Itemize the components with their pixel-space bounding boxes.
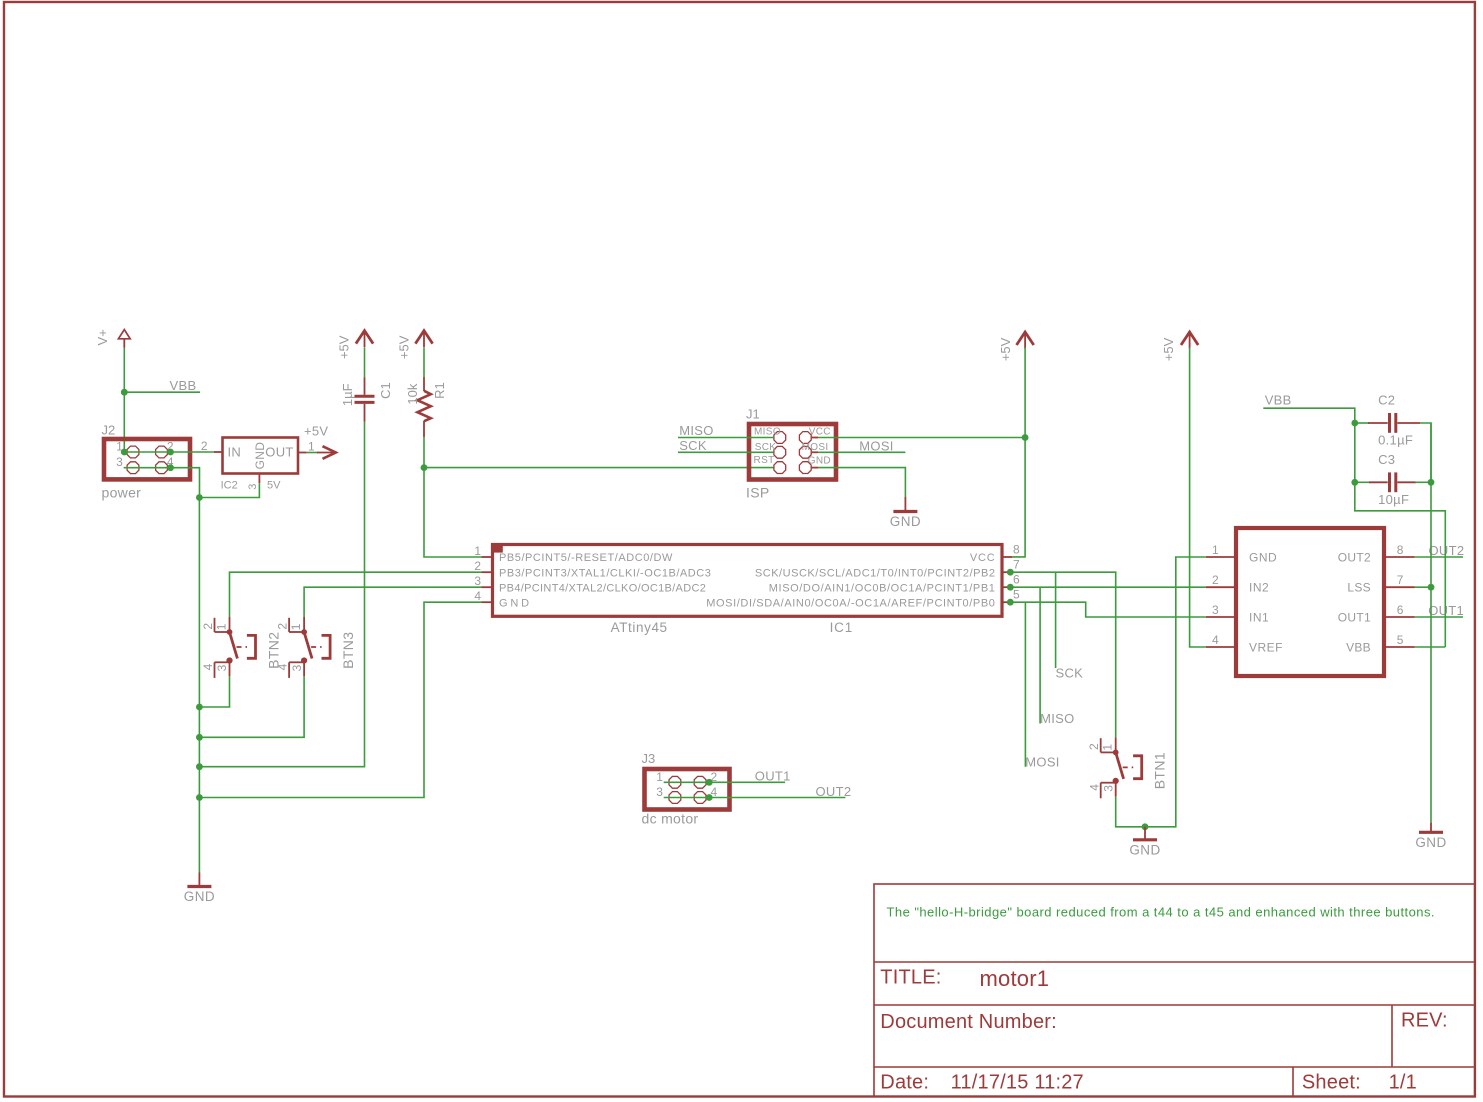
power symbol +5V (VCC rail): [998, 332, 1033, 361]
svg-text:1/1: 1/1: [1389, 1072, 1417, 1094]
pushbutton BTN2: [201, 617, 281, 678]
svg-text:dc motor: dc motor: [642, 811, 699, 827]
wire VBB to pin5: [1415, 646, 1446, 648]
svg-text:2: 2: [1212, 573, 1219, 587]
svg-text:2: 2: [201, 439, 208, 453]
svg-text:4: 4: [1212, 633, 1219, 647]
svg-text:3: 3: [474, 574, 481, 588]
svg-text:TITLE:: TITLE:: [880, 967, 941, 989]
svg-text:PB3/PCINT3/XTAL1/CLKI/-OC1B/AD: PB3/PCINT3/XTAL1/CLKI/-OC1B/ADC3: [499, 567, 711, 579]
svg-text:The "hello-H-bridge" board red: The "hello-H-bridge" board reduced from …: [887, 905, 1435, 920]
junction rail BTN2: [196, 704, 203, 711]
wire net MOSI stub: [818, 451, 905, 453]
svg-text:7: 7: [1397, 573, 1404, 587]
svg-text:SCK: SCK: [679, 438, 707, 453]
svg-text:PB4/PCINT4/XTAL2/CLKO/OC1B/ADC: PB4/PCINT4/XTAL2/CLKO/OC1B/ADC2: [499, 582, 706, 594]
svg-text:+5V: +5V: [397, 335, 412, 359]
wire VBB label to C2: [1263, 408, 1355, 423]
net label MOSI (ISP): [859, 439, 893, 454]
ground symbol (left rail): [184, 873, 215, 905]
svg-text:J2: J2: [102, 423, 116, 438]
junction BTN1 GND: [1142, 823, 1149, 830]
wire +5V rail down: [1024, 347, 1026, 437]
junction VCC/ISP: [1022, 434, 1029, 441]
net label OUT2 (J3): [816, 784, 852, 799]
svg-text:REV:: REV:: [1401, 1010, 1448, 1032]
svg-text:MISO: MISO: [1040, 711, 1074, 726]
wire net SCK dangle: [1055, 572, 1057, 668]
svg-text:BTN3: BTN3: [340, 632, 356, 669]
microcontroller IC1 ATtiny45: [474, 543, 1020, 635]
junction IC1 pin7: [1007, 569, 1014, 576]
wire IC2 GND to rail: [200, 483, 260, 497]
title block date row: [880, 1072, 1417, 1094]
svg-text:OUT: OUT: [265, 445, 293, 460]
connector J1 (ISP): [746, 407, 836, 501]
svg-text:R1: R1: [432, 382, 447, 399]
title block TITLE row: [880, 966, 1049, 991]
capacitor C3 10uF: [1355, 452, 1431, 507]
svg-text:MISO/DO/AIN1/OC0B/OC1A/PCINT1/: MISO/DO/AIN1/OC0B/OC1A/PCINT1/PB1: [769, 582, 996, 594]
wire BTN3 to rail: [199, 676, 304, 737]
svg-text:VCC: VCC: [970, 552, 996, 564]
wire C2 to C3 left: [1354, 423, 1356, 482]
wire IC1 pin2 to BTN2: [230, 572, 482, 617]
junction C3 right: [1428, 479, 1435, 486]
wire OUT2 stub: [1415, 556, 1464, 558]
svg-text:IN2: IN2: [1249, 581, 1269, 595]
svg-text:3: 3: [290, 664, 304, 671]
wire RST to ISP: [424, 467, 774, 469]
voltage regulator IC2: [201, 438, 315, 492]
svg-text:LSS: LSS: [1347, 581, 1371, 595]
svg-text:VBB: VBB: [1346, 641, 1371, 655]
svg-text:BTN1: BTN1: [1152, 752, 1168, 789]
net label MOSI: [1025, 755, 1059, 770]
wire LSS to GND net: [1415, 586, 1432, 588]
wire net MOSI dangle: [1024, 602, 1026, 767]
junction rail BTN3: [196, 734, 203, 741]
svg-text:OUT1: OUT1: [755, 769, 791, 784]
wire C1 to GND rail: [199, 422, 364, 767]
junction rail IC1 GND: [196, 794, 203, 801]
net label OUT1: [1428, 603, 1464, 618]
svg-text:VBB: VBB: [1265, 393, 1292, 408]
wire ISP VCC to +5V rail: [818, 437, 1025, 439]
svg-text:IN1: IN1: [1249, 611, 1269, 625]
svg-text:J3: J3: [642, 751, 656, 766]
svg-text:+5V: +5V: [336, 335, 351, 359]
svg-text:Date:: Date:: [880, 1072, 929, 1094]
junction LSS: [1428, 584, 1435, 591]
junction J2 pin4: [167, 464, 174, 471]
junction C2 left: [1351, 420, 1358, 427]
svg-text:GND: GND: [499, 597, 532, 609]
svg-text:VBB: VBB: [170, 378, 197, 393]
svg-text:1: 1: [474, 544, 481, 558]
svg-text:SCK/USCK/SCL/ADC1/T0/INT0/PCIN: SCK/USCK/SCL/ADC1/T0/INT0/PCINT2/PB2: [755, 567, 996, 579]
svg-text:RST: RST: [754, 455, 775, 466]
junction rail C1: [196, 763, 203, 770]
title block document number row: [880, 1010, 1447, 1034]
net label MISO: [1040, 711, 1074, 726]
wire IC1 pin5 to H-bridge IN1: [1012, 602, 1206, 617]
junction RESET/RST: [421, 464, 428, 471]
svg-text:OUT1: OUT1: [1338, 611, 1371, 625]
svg-text:8: 8: [1397, 543, 1404, 557]
junction J2 pin2: [167, 449, 174, 456]
ground symbol (BTN1): [1129, 827, 1160, 858]
net label VBB: [170, 378, 197, 393]
capacitor C2 0.1uF: [1355, 393, 1420, 448]
title block frame: [874, 884, 1475, 1097]
svg-text:motor1: motor1: [980, 966, 1050, 991]
wire GND rail left: [198, 498, 200, 873]
ground symbol (ISP): [890, 497, 921, 529]
svg-text:10k: 10k: [405, 383, 420, 404]
svg-text:11/17/15 11:27: 11/17/15 11:27: [951, 1072, 1084, 1094]
wire H-bridge GND: [1145, 557, 1206, 827]
wire GND net right vertical: [1430, 423, 1432, 822]
svg-text:ISP: ISP: [746, 485, 769, 501]
power symbol +5V (VREF rail): [1161, 332, 1198, 361]
capacitor C1 1uF: [340, 378, 393, 422]
wire R1 to RESET net: [423, 437, 425, 467]
svg-text:2: 2: [1087, 743, 1101, 750]
svg-text:VCC: VCC: [809, 427, 831, 438]
svg-text:MOSI: MOSI: [1025, 755, 1059, 770]
net label MISO (ISP): [679, 423, 713, 438]
svg-text:IN: IN: [228, 445, 242, 460]
wire +5V rail to IC1 pin8: [1012, 438, 1025, 557]
svg-text:6: 6: [1013, 573, 1020, 587]
svg-text:8: 8: [1013, 543, 1020, 557]
svg-text:1: 1: [308, 440, 315, 454]
svg-text:1: 1: [215, 623, 229, 630]
svg-text:5: 5: [1397, 633, 1404, 647]
wire net SCK stub: [678, 451, 773, 453]
wire C2 right to GND net: [1420, 423, 1431, 482]
svg-text:OUT2: OUT2: [1429, 543, 1465, 558]
junction C3 left: [1351, 479, 1358, 486]
svg-text:10µF: 10µF: [1378, 492, 1409, 507]
svg-text:MOSI/DI/SDA/AIN0/OC0A/-OC1A/AR: MOSI/DI/SDA/AIN0/OC0A/-OC1A/AREF/PCINT0/…: [706, 597, 995, 609]
svg-text:0.1µF: 0.1µF: [1378, 432, 1413, 447]
wire J3 OUT1: [664, 781, 785, 783]
net label VBB (right): [1265, 393, 1292, 408]
net label OUT2: [1429, 543, 1465, 558]
svg-text:J1: J1: [746, 407, 760, 422]
resistor R1 10k: [405, 377, 447, 437]
svg-text:OUT1: OUT1: [1428, 603, 1464, 618]
junction GND rail / IC2: [196, 494, 203, 501]
svg-text:2: 2: [474, 559, 481, 573]
net label SCK (ISP): [679, 438, 707, 453]
svg-text:4: 4: [474, 589, 481, 603]
svg-text:GND: GND: [808, 456, 831, 467]
svg-text:Sheet:: Sheet:: [1302, 1072, 1361, 1094]
svg-text:+5V: +5V: [1161, 337, 1176, 361]
wire IC1 pin6 to H-bridge IN2: [1012, 586, 1206, 588]
power symbol +5V (C1): [336, 331, 373, 359]
wire OUT1 stub: [1415, 616, 1464, 618]
svg-text:3: 3: [1101, 785, 1115, 792]
svg-text:PB5/PCINT5/-RESET/ADC0/DW: PB5/PCINT5/-RESET/ADC0/DW: [499, 552, 673, 564]
wire +5V to VREF: [1190, 347, 1206, 647]
svg-text:6: 6: [1397, 603, 1404, 617]
svg-text:GND: GND: [890, 514, 921, 529]
wire net MISO stub: [678, 437, 773, 439]
wire net MISO dangle: [1039, 587, 1041, 723]
svg-text:ATtiny45: ATtiny45: [611, 620, 668, 635]
svg-text:1: 1: [1212, 543, 1219, 557]
pushbutton BTN1: [1087, 737, 1167, 798]
junction IC1 pin6: [1007, 584, 1014, 591]
wire BTN1 to GND: [1116, 797, 1145, 827]
wire +5V to C1: [364, 347, 366, 378]
wire BTN2 to rail: [199, 676, 229, 707]
svg-text:2: 2: [201, 623, 215, 630]
svg-text:IC2: IC2: [221, 479, 238, 491]
power symbol V+: [95, 329, 130, 347]
wire J2 row2: [124, 468, 200, 498]
junction J3 pin4: [706, 794, 713, 801]
wire J3 OUT2: [664, 797, 846, 799]
svg-text:MOSI: MOSI: [859, 439, 893, 454]
junction J3 pin2: [706, 779, 713, 786]
title block description: [887, 905, 1435, 920]
connector J2 (power): [102, 423, 191, 501]
svg-text:power: power: [102, 485, 142, 501]
svg-text:7: 7: [1013, 558, 1020, 572]
svg-text:C3: C3: [1378, 452, 1395, 467]
svg-text:1µF: 1µF: [340, 383, 355, 406]
svg-text:MISO: MISO: [754, 427, 781, 438]
junction VBB tap: [121, 389, 128, 396]
svg-text:GND: GND: [1129, 842, 1160, 857]
svg-text:1: 1: [289, 623, 303, 630]
svg-text:OUT2: OUT2: [816, 784, 852, 799]
H-bridge driver IC: [1206, 528, 1415, 676]
svg-text:5V: 5V: [267, 479, 281, 491]
wire +5V to R1: [423, 347, 425, 377]
junction J2 pin1: [121, 449, 128, 456]
svg-text:C1: C1: [378, 382, 393, 399]
svg-text:+5V: +5V: [304, 424, 328, 439]
svg-text:V+: V+: [95, 329, 110, 345]
wire V+ to J2 pin1: [123, 348, 125, 453]
svg-text:1: 1: [1101, 744, 1115, 751]
svg-text:MISO: MISO: [679, 423, 713, 438]
wire RESET to IC1 pin1: [424, 468, 482, 557]
wire VBB net to pin5 rail: [1355, 482, 1446, 647]
net label OUT1 (J3): [755, 769, 791, 784]
svg-text:3: 3: [116, 455, 123, 469]
wire IC1 pin7 to BTN1: [1012, 572, 1115, 737]
wire IC1 pin3 to BTN3: [304, 587, 481, 617]
power symbol +5V (R1): [397, 331, 433, 359]
pushbutton BTN3: [276, 617, 356, 678]
svg-text:4: 4: [276, 663, 290, 670]
wire J2 row1 to IC2 IN: [124, 451, 214, 453]
power symbol +5V (IC2 output): [304, 424, 336, 459]
wire ISP GND down: [818, 468, 905, 497]
svg-text:OUT2: OUT2: [1338, 551, 1371, 565]
svg-text:VREF: VREF: [1249, 641, 1283, 655]
svg-text:BTN2: BTN2: [265, 632, 281, 669]
svg-text:4: 4: [201, 663, 215, 670]
net label SCK: [1056, 666, 1084, 681]
svg-text:3: 3: [247, 484, 259, 490]
svg-text:IC1: IC1: [830, 620, 853, 635]
wire IC1 pin4 GND: [199, 602, 481, 797]
svg-text:C2: C2: [1378, 393, 1395, 408]
svg-text:Document Number:: Document Number:: [880, 1011, 1057, 1033]
connector J3 (dc motor): [642, 751, 730, 827]
svg-text:SCK: SCK: [1056, 666, 1084, 681]
svg-text:5: 5: [1013, 588, 1020, 602]
svg-text:3: 3: [1212, 603, 1219, 617]
junction IC1 pin5: [1007, 599, 1014, 606]
svg-text:GND: GND: [1415, 835, 1446, 850]
svg-text:4: 4: [1087, 784, 1101, 791]
svg-text:2: 2: [276, 623, 290, 630]
ground symbol (right): [1415, 822, 1446, 849]
svg-text:GND: GND: [1249, 551, 1277, 565]
svg-text:1: 1: [656, 770, 663, 784]
svg-text:3: 3: [656, 785, 663, 799]
svg-text:GND: GND: [184, 889, 215, 904]
svg-text:+5V: +5V: [998, 337, 1013, 361]
wire IC2 OUT to +5V: [307, 452, 318, 454]
wire net VBB label stub: [124, 391, 200, 393]
svg-text:3: 3: [215, 664, 229, 671]
